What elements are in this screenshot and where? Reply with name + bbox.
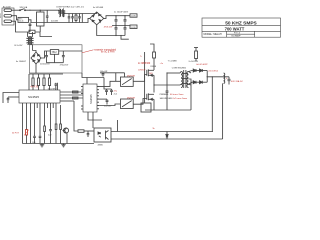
diode D4 [200,81,208,84]
svg-text:PRIMER:: PRIMER: [160,94,170,96]
svg-text:2x 100uF 400V: 2x 100uF 400V [114,12,129,14]
wire vcc rail [59,50,82,52]
feedback line upper [111,131,213,133]
capacitor CY1 [78,14,81,23]
svg-text:SG3525: SG3525 [89,94,93,104]
svg-text:220V: 220V [0,13,2,18]
wire drop to fb [117,120,119,132]
capacitor C2b [115,26,118,36]
wire vcc stub U4 [86,78,88,85]
resistor R5 [44,108,46,144]
svg-text:CON: CON [131,27,136,29]
svg-text:4x0.47uF/FP: 4x0.47uF/FP [196,64,208,66]
resistor R9 [73,97,79,99]
transformer T2 secondary [32,32,33,51]
title block [202,18,281,37]
ground bus [23,143,95,145]
svg-text:MODEL: MELAH: MODEL: MELAH [204,33,222,36]
svg-text:B.DRAWF: B.DRAWF [232,35,242,38]
IC U1 SG3525 [19,90,60,103]
bridge BR1 [90,12,104,25]
capacitor C3b [124,26,127,36]
wire pin2 down [26,108,28,130]
svg-text:2u2: 2u2 [114,93,118,95]
capacitor C fb [87,131,90,137]
svg-text:2200u/35V: 2200u/35V [40,63,50,65]
svg-text:2x 1k2/5W: 2x 1k2/5W [189,61,199,63]
wire minus drop [121,36,129,40]
wire cap2 to ic [57,83,59,90]
center tap wire [189,79,192,110]
capacitor C7 [102,73,105,77]
red note text [94,48,116,53]
feedback vertical 1 [211,77,213,132]
wire mid to primary [154,84,180,86]
resistor R6 [55,108,57,144]
choke L1 core [58,9,65,17]
pull-up rail [29,73,63,75]
choke L1 winding a [59,9,60,17]
svg-text:10R/1W: 10R/1W [138,69,145,71]
resistor R2 [37,74,39,90]
resistor R8 [73,91,79,93]
wire trafo to bridge [33,51,37,53]
capacitor C5 [62,51,65,63]
connector CON2 [130,25,137,29]
capacitor CX0 [46,10,49,22]
wire vout [207,76,229,78]
wire pin3 down [30,108,32,144]
zener TL431 [166,132,168,140]
wire N from J1 [14,16,18,20]
svg-text:B 2x15V: B 2x15V [15,45,23,47]
wire feedback drop [74,101,78,131]
transistor Q2 [147,93,154,100]
wire GD1 to gate Q1 [133,75,147,82]
svg-text:SEKUNDER:: SEKUNDER: [160,98,173,100]
capacitor C out [228,77,231,85]
diode D3 [189,81,200,85]
svg-text:470u/25V: 470u/25V [60,64,69,66]
IC U4 left pins [81,87,83,110]
svg-text:470k 2W: 470k 2W [104,27,114,29]
capacitor C13 [39,108,42,144]
capacitor C10 [105,89,108,95]
wire U4 to GD1 [97,81,121,86]
vcc wire right [100,72,125,74]
rectifier join [206,71,208,83]
capacitor C couple [166,91,169,110]
svg-text:7812: 7812 [52,52,58,54]
svg-text:2x6 10Rx2: 2x6 10Rx2 [208,71,218,73]
wire GD2 to gate Q2 [133,99,147,105]
svg-text:4N29/2R: 4N29/2R [127,75,135,77]
resistor R3 [43,74,45,90]
svg-text:46 turns 2mm: 46 turns 2mm [170,93,184,96]
svg-text:SW 10A: SW 10A [20,6,28,9]
label sekunder [160,97,188,100]
aux enclosure box [30,45,83,73]
transistor Q3 [63,128,69,144]
wire L to filter [25,9,59,11]
bottom power bus [154,109,191,111]
NTC box [18,17,29,22]
svg-text:4x 4.7k: 4x 4.7k [31,87,39,89]
capacitor C12 [33,108,36,144]
IC U1 bottom pins [23,103,57,108]
svg-text:4N35: 4N35 [98,144,104,146]
wire DC plus [104,16,130,19]
ground symbol b [61,144,65,147]
drain column wire2 [153,58,155,70]
svg-text:CM 1.2m: CM 1.2m [76,7,85,9]
label primer [160,93,184,96]
svg-text:2u2: 2u2 [48,135,52,137]
transformer T1 primary [180,72,183,88]
svg-text:4x UF5408: 4x UF5408 [93,7,104,9]
capacitor X2 box [37,10,45,32]
choke L1 winding b [63,9,64,17]
wire DC minus bus [97,25,125,36]
IC U1 right pin wires [60,92,83,101]
capacitor C10b [110,89,113,95]
svg-text:5D-11: 5D-11 [19,21,24,23]
transformer T1 secondary [187,72,191,88]
gate driver box GD2 [121,99,134,109]
svg-text:CON: CON [131,16,136,18]
resistor R snubber [153,52,156,58]
wire U4 pin down2 [88,112,102,120]
IC U1 left pin b [8,96,19,98]
IC U4 driver [83,84,97,112]
svg-text:FG 1.0: FG 1.0 [234,33,241,35]
wire rail to IC pin [28,74,30,90]
svg-text:AC 220V: AC 220V [3,6,11,9]
wire vcc down to caps [104,78,112,90]
svg-text:2x IRFP460: 2x IRFP460 [138,63,151,65]
source column wire [145,99,154,110]
svg-text:700 WATT: 700 WATT [225,26,245,31]
svg-text:100n/4R: 100n/4R [100,71,108,73]
IC U4 right pins [97,86,99,108]
wire AC to bridge left [85,18,90,22]
resistor R7 [60,105,62,144]
ground symbol [40,144,44,147]
svg-text:47u: 47u [114,90,117,92]
wire earth cont [35,32,52,37]
capacitor CX2 [71,14,74,23]
capacitor C2a [115,16,118,26]
svg-text:4x 1N4007: 4x 1N4007 [16,61,27,63]
capacitor CX1 [68,14,71,23]
svg-text:2x7 turns 5mm: 2x7 turns 5mm [173,97,188,100]
svg-text:RSNB: RSNB [151,66,157,68]
capacitor C1 [29,23,32,33]
connector CON1 [130,14,137,18]
wire junction vertical [115,73,117,82]
feedback line lower [111,138,223,140]
gate driver box GD1 [121,77,134,86]
drain column wire [150,44,154,52]
feedback vertical 2 [222,83,224,139]
connector J1 AC inlet [2,8,14,25]
capacitor C9 [7,97,10,103]
resistor R out snubber [194,48,198,62]
wire U4 pin down [92,112,94,128]
Q2 lower box [141,103,151,112]
transistor Q1 [147,69,154,76]
svg-text:40V 20A DC: 40V 20A DC [231,80,243,83]
capacitor C11 [97,99,108,104]
pot P1 [24,130,29,136]
svg-text:SG3525: SG3525 [28,95,39,99]
resistor R4 [48,74,50,90]
svg-text:CORE E65/B66: CORE E65/B66 [172,68,187,70]
resistor R1 [32,74,34,90]
wire primary top [167,72,180,74]
gate bus vertical [144,52,146,103]
wire vertical link [81,14,83,23]
junction dots input [29,10,40,11]
wire AC to bridge top [85,12,97,14]
inductor L out [224,73,225,83]
wire U4 to GD2 [97,104,121,106]
transformer T2 core [26,36,33,45]
wire aux dc [41,51,50,58]
mid column wire [153,75,155,92]
regulator U2 7812 [50,50,58,55]
optocoupler U3 [94,128,111,142]
capacitor C8 [55,83,58,90]
switch SW1 [20,9,26,11]
wire N to filter [29,20,86,23]
earth link box [29,30,35,33]
junction dots power [153,72,213,85]
resistor R fb [78,130,94,133]
resistor R bleed [75,14,77,23]
svg-text:4x100N: 4x100N [51,21,58,23]
coupling column [166,73,168,91]
svg-text:5k POT: 5k POT [12,132,20,134]
vcc drop to box [124,73,126,77]
svg-text:for uC & FAN: for uC & FAN [101,51,115,54]
regulator gnd pin [54,54,56,62]
capacitor C4 [45,51,48,63]
diode D2 [200,69,208,72]
wire earth [14,21,29,32]
diode D1 [189,69,200,72]
svg-text:Tr: Tr [140,56,142,58]
svg-text:CX 2u2: CX 2u2 [68,7,76,9]
wire pot down [26,135,28,144]
wire aux gnd drop [35,64,37,73]
transformer T1 core [182,70,189,88]
capacitor C3a [124,16,127,26]
capacitor C14 [49,108,52,144]
transformer T2 aux primary [28,32,29,45]
svg-text:+1u: +1u [160,63,163,65]
wire L from J1 [14,9,20,11]
choke exit wire [64,14,85,17]
svg-text:4N29/2R: 4N29/2R [127,98,135,100]
IC U1 left pin a [3,93,19,104]
svg-text:T 1.2/48B: T 1.2/48B [168,60,178,62]
red note leader [82,50,94,53]
aux gnd line [47,62,64,64]
svg-text:5k: 5k [153,128,156,130]
wire vcc to U4 [82,73,104,78]
node midpoint wire [112,25,130,27]
wire pin1 down [22,108,24,144]
junction dots [115,15,125,36]
bridge BR2 aux [31,52,41,64]
